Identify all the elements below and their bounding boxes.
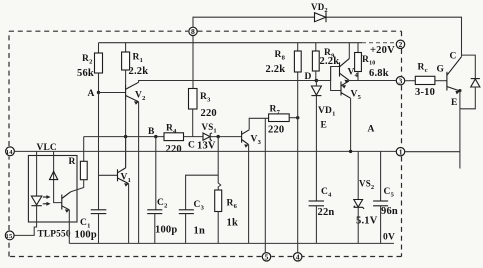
wire terminal 5 column	[264, 118, 266, 252]
wire V1 collector up to junction	[125, 137, 127, 168]
svg-text:8: 8	[191, 27, 195, 36]
wire phototransistor emitter to 0V rail	[68, 210, 70, 244]
svg-text:2.2k: 2.2k	[129, 66, 149, 77]
terminal node 15	[5, 231, 14, 240]
svg-text:E: E	[321, 121, 328, 131]
transistor V1	[99, 168, 132, 187]
svg-text:C: C	[188, 141, 195, 151]
resistor R3	[189, 89, 217, 120]
terminal node 3	[396, 77, 404, 86]
svg-text:4: 4	[296, 253, 300, 262]
svg-text:TLP550: TLP550	[38, 230, 71, 240]
phototransistor Q1	[62, 192, 71, 213]
svg-text:+20V: +20V	[370, 45, 395, 56]
svg-text:220: 220	[166, 144, 182, 155]
svg-text:3: 3	[399, 77, 403, 86]
svg-text:D: D	[305, 72, 312, 82]
wire VLC emitter-reference rail from terminal 14 to terminal 1	[15, 150, 396, 152]
wire LED cathode to terminal 15	[14, 206, 36, 236]
wire phototransistor base pull-down from rail	[54, 151, 62, 202]
resistor R1	[122, 43, 149, 85]
wire V4 collector to +20V rail	[348, 43, 350, 59]
wire VD1 cathode down to C4	[315, 96, 317, 201]
node junction R1-V1	[124, 135, 127, 138]
svg-text:0V: 0V	[383, 233, 395, 243]
svg-text:VLC: VLC	[37, 143, 57, 153]
wire LED anode from terminal 14	[36, 151, 38, 196]
wire 0V bottom rail	[69, 242, 394, 244]
wire V2 collector to node D line	[139, 81, 331, 83]
resistor R8	[266, 43, 302, 75]
resistor R4	[164, 124, 203, 156]
svg-text:2.2k: 2.2k	[266, 64, 286, 75]
light arrows	[43, 195, 51, 206]
base arrow marker	[50, 171, 58, 179]
resistor R7	[268, 105, 298, 136]
terminal node 14	[6, 147, 15, 156]
wire V1 emitter to 0V rail	[128, 184, 130, 244]
svg-text:1: 1	[399, 148, 403, 157]
wire R3 to node C	[192, 109, 194, 137]
terminal node 1	[396, 148, 404, 157]
dashed enclosure border	[9, 31, 402, 256]
svg-text:220: 220	[201, 108, 217, 119]
svg-text:15: 15	[6, 233, 13, 240]
node VS1-R6 junction	[217, 135, 220, 138]
wire node 8 to R3	[192, 36, 194, 89]
svg-text:14: 14	[6, 149, 13, 156]
wire R8 bottom column down to terminal 4	[297, 72, 299, 252]
resistor R (opto pull-up)	[69, 137, 88, 192]
svg-text:1n: 1n	[194, 226, 206, 237]
terminal node 2	[396, 40, 404, 49]
wire +20V top rail	[99, 42, 363, 44]
wire V3 collector up to R7	[249, 118, 268, 130]
svg-text:A: A	[368, 125, 375, 135]
capacitor C2	[147, 137, 177, 244]
terminal node 5	[262, 253, 270, 262]
transistor V2	[99, 82, 146, 105]
svg-text:13V: 13V	[197, 141, 216, 152]
svg-text:A: A	[88, 89, 95, 99]
svg-text:G: G	[437, 65, 445, 75]
wire rail dashes to terminal 2	[362, 42, 396, 44]
diode VD1	[311, 81, 335, 118]
resistor R2	[77, 43, 103, 92]
wire push-pull emitter output to terminal 3	[349, 80, 396, 82]
svg-text:6.8k: 6.8k	[369, 68, 389, 79]
svg-text:100p: 100p	[155, 225, 177, 236]
node A	[88, 89, 101, 99]
transistor V4	[316, 59, 358, 84]
zener diode VS1	[197, 122, 242, 152]
terminal node 4	[294, 253, 302, 262]
capacitor C3	[179, 175, 218, 243]
svg-text:100p: 100p	[75, 230, 97, 241]
svg-text:2: 2	[399, 40, 403, 49]
transistor V3	[242, 130, 262, 148]
svg-text:3-10: 3-10	[415, 87, 435, 98]
svg-text:5: 5	[265, 253, 269, 262]
wire IGBT emitter down to terminal 1 line	[458, 89, 461, 92]
wire V2 emitter down to 0V rail	[138, 102, 140, 244]
resistor R9	[312, 43, 339, 81]
svg-text:1k: 1k	[227, 218, 239, 229]
transistor V5	[331, 67, 362, 102]
LED D1 inside optocoupler	[31, 196, 41, 206]
wire terminal 1 to IGBT emitter	[405, 151, 460, 153]
svg-text:5.1V: 5.1V	[356, 216, 378, 227]
wire V2 base column down to B-line dot and V1 collector	[125, 100, 127, 169]
resistor R6	[215, 137, 238, 244]
capacitor C5	[373, 151, 398, 243]
transistor IGBT Q2	[447, 52, 462, 109]
wire top desat link from node 8 to VD2 and collector	[193, 17, 462, 56]
svg-text:22n: 22n	[318, 207, 335, 218]
wire node A down to B line and C1	[98, 93, 100, 210]
svg-text:96n: 96n	[381, 206, 398, 217]
svg-text:220: 220	[268, 125, 284, 136]
node V5 collector on rail	[349, 150, 352, 153]
svg-text:R: R	[69, 157, 76, 167]
wire B line horizontal	[84, 136, 164, 138]
node R7 right junction	[296, 116, 299, 119]
svg-text:B: B	[148, 127, 155, 137]
capacitor C4	[309, 187, 335, 243]
terminal node 8	[189, 27, 197, 36]
node D	[305, 72, 319, 82]
capacitor C1	[75, 210, 107, 244]
node B	[148, 127, 158, 138]
wire V5 collector down to rail	[350, 98, 352, 151]
zener diode VS2	[354, 151, 378, 243]
resistor R10	[355, 43, 389, 81]
diode VD2	[311, 2, 328, 22]
wire V3 emitter to 0V rail	[248, 145, 250, 244]
svg-text:C: C	[450, 52, 457, 62]
svg-text:2.2k: 2.2k	[320, 56, 340, 67]
svg-text:E: E	[451, 98, 458, 108]
freewheel diode across IGBT	[460, 55, 480, 109]
resistor Rc	[405, 63, 447, 99]
svg-text:56k: 56k	[77, 68, 94, 79]
optocoupler U1 TLP550 box	[28, 156, 77, 223]
